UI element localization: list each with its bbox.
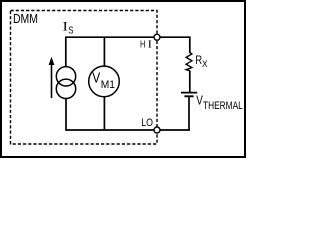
current source IS (two overlapping circles) (56, 67, 75, 86)
svg-text:M1: M1 (101, 79, 115, 91)
wire right branch upper (189, 36, 191, 53)
DMM enclosure (dashed box) (11, 11, 158, 145)
svg-text:LO: LO (141, 117, 153, 129)
current direction arrow (51, 64, 53, 99)
wire voltmeter lower (103, 97, 105, 130)
wire bottom rail (66, 129, 190, 131)
wire right branch middle (189, 71, 191, 93)
svg-text:H: H (140, 39, 145, 51)
wire left branch upper (65, 36, 67, 67)
wire left branch lower (65, 99, 67, 131)
battery VTHERMAL long plate (181, 92, 197, 94)
voltmeter VM1 (89, 66, 120, 97)
battery VTHERMAL short plate (184, 95, 193, 97)
svg-text:S: S (68, 25, 73, 37)
wire right branch lower (188, 96, 190, 130)
svg-text:I: I (148, 40, 153, 51)
svg-text:V: V (92, 71, 100, 87)
resistor RX (186, 53, 192, 71)
node HI terminal (154, 34, 160, 40)
node LO terminal (154, 127, 160, 133)
border frame (1, 1, 245, 157)
wire voltmeter upper (103, 37, 105, 67)
svg-text:THERMAL: THERMAL (203, 100, 243, 112)
svg-text:I: I (63, 19, 68, 33)
svg-text:X: X (202, 59, 208, 69)
svg-text:DMM: DMM (13, 12, 38, 26)
wire top rail (66, 36, 190, 38)
